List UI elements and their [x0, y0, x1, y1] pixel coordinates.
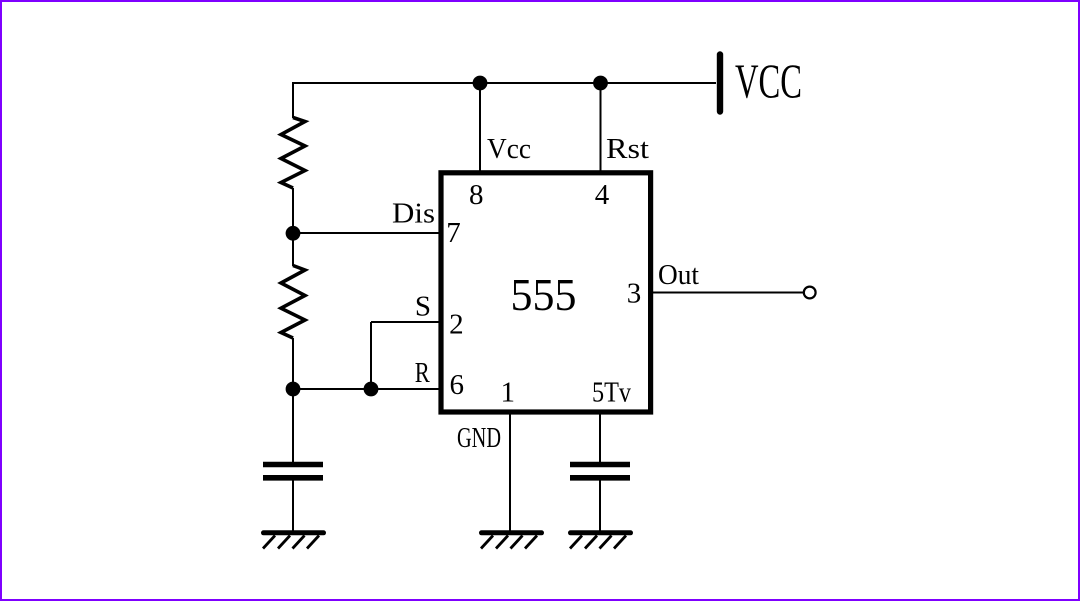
- wire pin 4 to rail: [600, 83, 602, 171]
- svg-text:Dis: Dis: [392, 198, 435, 230]
- svg-text:3: 3: [627, 278, 642, 310]
- power VCC: [717, 55, 723, 112]
- wire Trig to pin 2: [371, 321, 442, 323]
- svg-text:6: 6: [449, 369, 464, 401]
- wire pin 1 to ground: [509, 413, 511, 531]
- op-amp U1 555 IC body: [441, 173, 651, 412]
- wire pin 8 to rail: [479, 83, 481, 171]
- svg-text:Rst: Rst: [606, 133, 649, 165]
- junction pin4 rail: [593, 76, 608, 91]
- wire node Thr to pin 6: [293, 388, 442, 390]
- capacitor C1: [263, 465, 323, 478]
- svg-text:2: 2: [449, 309, 464, 341]
- ground: [481, 533, 542, 549]
- ground: [570, 533, 631, 549]
- svg-text:4: 4: [595, 179, 610, 211]
- wire C1 to ground: [292, 480, 294, 531]
- svg-text:VCC: VCC: [735, 54, 802, 109]
- svg-text:R: R: [415, 357, 431, 389]
- wire pin 3 to output: [653, 292, 804, 294]
- wire R1 to node Dis: [292, 188, 294, 233]
- resistor R2: [281, 266, 305, 339]
- wire VCC top rail: [293, 82, 716, 84]
- svg-text:5Tv: 5Tv: [592, 377, 631, 409]
- wire node Dis to R2: [292, 233, 294, 266]
- resistor R1: [281, 118, 305, 189]
- wire C2 to ground: [599, 480, 601, 531]
- ground: [263, 533, 324, 549]
- svg-text:8: 8: [469, 179, 484, 211]
- junction node Thr: [286, 382, 301, 397]
- wire Dis to pin 7: [293, 232, 442, 234]
- svg-text:1: 1: [500, 377, 515, 409]
- wire R2 to node Thr: [292, 338, 294, 389]
- svg-text:555: 555: [511, 270, 577, 320]
- wire Trig vertical: [370, 322, 372, 389]
- svg-text:7: 7: [446, 217, 461, 249]
- svg-text:Out: Out: [658, 259, 699, 291]
- wire node Thr to C1: [292, 389, 294, 462]
- svg-text:S: S: [415, 291, 431, 323]
- capacitor C2: [570, 465, 630, 478]
- junction node Dis: [286, 226, 301, 241]
- svg-text:Vcc: Vcc: [487, 133, 531, 165]
- output terminal: [804, 287, 816, 299]
- wire pin 5 to C2: [599, 413, 601, 462]
- svg-text:GND: GND: [457, 422, 501, 454]
- wire left branch top: [292, 82, 294, 118]
- junction node Trig: [364, 382, 379, 397]
- junction pin8 rail: [473, 76, 488, 91]
